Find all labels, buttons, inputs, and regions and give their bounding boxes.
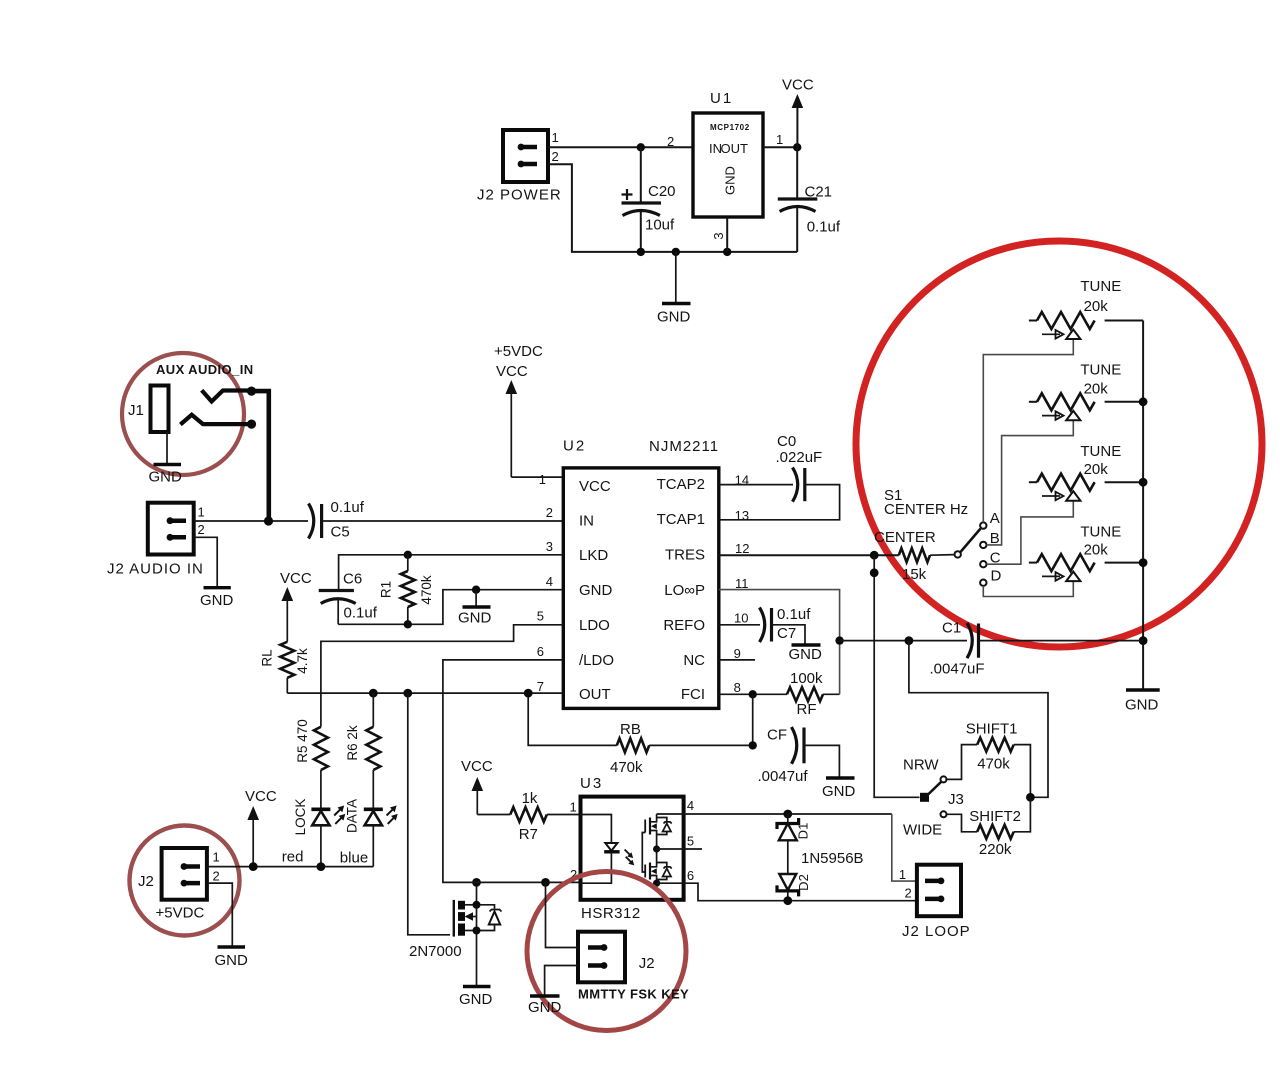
wire contact B to pot2 wiper (987, 420, 1074, 545)
ground 2N7000 (459, 987, 493, 1009)
svg-text:220k: 220k (979, 841, 1012, 858)
wire C5 to U2 pin2 (322, 520, 564, 522)
svg-text:CF: CF (767, 727, 787, 744)
node dot MMTTY branch (541, 878, 550, 887)
resistor R1 470k (379, 555, 435, 625)
jack contact lower (180, 415, 251, 425)
node dot TRES (870, 551, 879, 560)
svg-text:C20: C20 (648, 183, 676, 200)
svg-text:R1: R1 (379, 581, 394, 598)
diode 2N7000 body zener (477, 905, 502, 931)
svg-text:12: 12 (735, 541, 749, 556)
resistor RF 100k (787, 670, 823, 718)
svg-text:.022uF: .022uF (776, 449, 823, 466)
svg-text:TCAP2: TCAP2 (657, 476, 705, 493)
ground C7 (789, 645, 823, 663)
switch J3 lever (927, 782, 942, 796)
svg-text:MMTTY FSK KEY: MMTTY FSK KEY (578, 987, 689, 1002)
svg-text:5: 5 (687, 834, 694, 849)
switch J3 contact WIDE (941, 811, 947, 817)
wire U1 pin1 to VCC node (763, 146, 797, 148)
svg-text:VCC: VCC (461, 758, 493, 775)
svg-text:C21: C21 (805, 184, 833, 201)
svg-text:blue: blue (340, 850, 368, 867)
potentiometer TUNE 20k (4) (1029, 524, 1143, 582)
connector J2 AUDIO IN (107, 503, 205, 578)
svg-text:3: 3 (546, 539, 553, 554)
svg-text:1: 1 (899, 867, 906, 882)
svg-text:TUNE: TUNE (1080, 524, 1121, 541)
svg-text:GND: GND (528, 999, 562, 1016)
power VCC +5VDC (245, 788, 277, 867)
svg-text:R6 2k: R6 2k (345, 725, 360, 761)
wire VCC to U2 pin1 (511, 476, 563, 478)
resistor CENTER 15k (874, 529, 955, 583)
wire R7 to U3 pin1 (547, 814, 581, 816)
svg-text:VCC: VCC (782, 77, 814, 94)
wire C1 row (840, 640, 967, 642)
wire U2 pin12 TRES to CENTER (719, 554, 899, 556)
svg-text:D1: D1 (795, 823, 810, 840)
node dot LOOP-C1 (835, 636, 843, 644)
svg-text:1: 1 (552, 130, 559, 145)
svg-text:20k: 20k (1084, 542, 1109, 559)
wire VCC to R7 (477, 814, 510, 816)
wire U3 pin6 (657, 883, 917, 901)
wire R6 top lead (372, 693, 374, 727)
capacitor C20 10uf (622, 147, 676, 252)
capacitor C21 0.1uf (778, 147, 841, 252)
svg-text:LO∞P: LO∞P (664, 582, 705, 599)
svg-text:D: D (991, 568, 1002, 585)
wire C6 R1 bottom rail to U2 pin4 (338, 590, 563, 625)
svg-text:.0047uf: .0047uf (758, 768, 809, 785)
svg-text:U1: U1 (710, 90, 733, 107)
svg-text:GND: GND (149, 469, 183, 486)
node dot TRES branch (870, 568, 879, 577)
svg-text:0.1uf: 0.1uf (807, 219, 841, 236)
svg-text:J1: J1 (128, 402, 144, 419)
svg-text:LKD: LKD (579, 547, 608, 564)
wire J2 AUDIO IN pin2 to ground (194, 537, 218, 586)
wire contact C to pot3 wiper (987, 501, 1074, 565)
ground J2 +5VDC (215, 947, 249, 969)
switch J3 pole (920, 793, 929, 802)
svg-text:OUT: OUT (579, 686, 611, 703)
ground (power rail) (657, 252, 691, 326)
svg-text:2: 2 (213, 869, 220, 884)
svg-text:TUNE: TUNE (1080, 443, 1121, 460)
svg-text:red: red (282, 849, 304, 866)
ground U2 pin4 (458, 590, 492, 627)
svg-text:15k: 15k (902, 566, 927, 583)
power +5VDC VCC (494, 343, 543, 477)
potentiometer TUNE 20k (1) (1029, 278, 1143, 339)
svg-text:5: 5 (537, 609, 544, 624)
svg-text:C7: C7 (777, 625, 796, 642)
wire RB to pin8 node (649, 694, 753, 745)
node dot RB branch (524, 689, 533, 698)
svg-text:4: 4 (687, 798, 694, 813)
svg-text:CENTER Hz: CENTER Hz (884, 501, 968, 518)
svg-text:CENTER: CENTER (874, 529, 936, 546)
svg-text:0.1uf: 0.1uf (777, 606, 811, 623)
svg-text:470k: 470k (977, 756, 1010, 773)
wire SHIFT2 to common (1014, 797, 1031, 832)
resistor SHIFT1 470k (966, 721, 1018, 773)
wire pin6 /LDO to drain row (443, 660, 581, 883)
node dot C20 bottom rail (637, 248, 645, 256)
svg-text:R5 470: R5 470 (295, 719, 310, 763)
wire MMTTY pin2 to ground (545, 966, 578, 995)
svg-text:J2: J2 (639, 955, 655, 972)
node dot R1 bottom (404, 620, 412, 628)
svg-text:VCC: VCC (579, 478, 611, 495)
svg-text:GND: GND (822, 783, 856, 800)
svg-text:11: 11 (735, 576, 749, 591)
wire RF to LOOP vertical (823, 693, 840, 695)
ground CF (822, 778, 856, 800)
wire OUT row (287, 692, 563, 694)
svg-text:2: 2 (546, 505, 553, 520)
svg-text:GND: GND (789, 646, 823, 663)
svg-text:7: 7 (537, 679, 544, 694)
svg-text:1k: 1k (522, 790, 538, 807)
node dot J3 common (1026, 793, 1035, 802)
LED DATA (345, 770, 398, 867)
svg-text:470k: 470k (610, 759, 643, 776)
svg-text:6: 6 (687, 868, 694, 883)
svg-text:J3: J3 (948, 791, 964, 808)
svg-text:SHIFT2: SHIFT2 (969, 808, 1021, 825)
wire C1 to ground bus (979, 640, 1144, 642)
wire U2 pin3 LKD (339, 555, 564, 589)
svg-text:20k: 20k (1084, 461, 1109, 478)
svg-text:C1: C1 (942, 620, 961, 637)
svg-text:100k: 100k (790, 670, 823, 687)
potentiometer TUNE 20k (2) (1029, 362, 1143, 421)
svg-text:VCC: VCC (496, 363, 528, 380)
svg-text:RF: RF (797, 701, 817, 718)
wire NRW to SHIFT1 (947, 745, 978, 780)
svg-text:U3: U3 (580, 775, 603, 792)
svg-text:J2: J2 (138, 873, 154, 890)
wire C7 to ground (772, 625, 806, 644)
power VCC (top) (782, 77, 814, 148)
svg-text:LDO: LDO (579, 617, 610, 634)
switch S1 pole (955, 551, 961, 557)
svg-text:GND: GND (458, 610, 492, 627)
svg-text:1: 1 (776, 132, 783, 147)
svg-text:DATA: DATA (345, 799, 360, 833)
jack contact upper (202, 390, 252, 401)
node dot D1 top (783, 810, 792, 819)
resistor SHIFT2 220k (969, 808, 1021, 858)
svg-text:20k: 20k (1084, 381, 1109, 398)
svg-text:C6: C6 (343, 571, 362, 588)
svg-text:1: 1 (213, 850, 220, 865)
power VCC R7 (461, 758, 493, 815)
capacitor C0 .022uF (776, 433, 823, 502)
wire U2 pin10 REFO (719, 624, 760, 626)
svg-text:1: 1 (539, 472, 546, 487)
resistor R6 2k (345, 725, 380, 770)
switch contact B (980, 542, 986, 548)
svg-text:+5VDC: +5VDC (494, 343, 543, 360)
svg-text:2: 2 (667, 134, 674, 149)
svg-text:RB: RB (620, 721, 641, 738)
ground bus GND (1125, 690, 1160, 714)
LED LOCK (293, 770, 345, 867)
wire contact A to pot1 wiper (983, 339, 1073, 522)
svg-text:3: 3 (711, 232, 726, 239)
capacitor C7 0.1uf (760, 606, 812, 642)
svg-text:J2 POWER: J2 POWER (477, 187, 562, 204)
svg-text:1: 1 (570, 800, 577, 815)
node dot R6 top (369, 689, 378, 698)
red circle J2 +5VDC (130, 826, 240, 936)
svg-text:C0: C0 (777, 433, 796, 450)
svg-text:NRW: NRW (903, 757, 939, 774)
power VCC RL (280, 570, 312, 642)
svg-text:FCI: FCI (681, 686, 705, 703)
node dot gate branch (403, 689, 412, 698)
IC U1 MCP1702 (693, 90, 763, 217)
wire SHIFT1 to common (1014, 745, 1031, 798)
wire J2 POWER pin2 to ground rail (548, 164, 797, 252)
connector J2 LOOP (899, 865, 971, 940)
node dot C1 left (905, 636, 914, 645)
node dot jack ring (247, 420, 256, 429)
wire J2 +5VDC pin2 to ground (207, 883, 232, 945)
capacitor C5 0.1uf (309, 499, 365, 541)
capacitor CF .0047uf (758, 727, 809, 786)
connector J1 (128, 386, 169, 433)
node dot VCC branch (249, 862, 258, 871)
LED inside U3 (581, 815, 635, 884)
svg-text:2: 2 (905, 886, 912, 901)
resistor RL 4.7k (260, 642, 310, 693)
svg-text:GND: GND (579, 582, 613, 599)
wire U2 pin8 FCI (719, 693, 787, 695)
svg-text:NC: NC (683, 652, 705, 669)
wire J2 POWER pin1 to U1 pin2 (548, 146, 693, 148)
node dot C20 top (637, 143, 645, 151)
wire U3 pin5 stub (657, 848, 702, 850)
switch J3 contact NRW (941, 776, 947, 782)
potentiometer TUNE 20k (3) (1029, 443, 1143, 501)
IC U2 NJM2211 (537, 438, 750, 709)
wire U2 pin11 LOOP (719, 590, 840, 695)
node dot drain (473, 901, 481, 909)
red circle MMTTY (527, 872, 686, 1031)
node dot ground stub (672, 248, 680, 256)
wire U3 pin4 (657, 813, 892, 815)
resistor RB 470k (610, 721, 649, 776)
wire U2 pin9 NC stub (719, 659, 755, 661)
svg-text:U2: U2 (563, 438, 586, 455)
node dot pin8 (749, 690, 757, 698)
wire WIDE to SHIFT2 (947, 814, 978, 832)
svg-text:TCAP1: TCAP1 (657, 511, 705, 528)
node dot bus pot3 (1139, 478, 1148, 487)
svg-text:GND: GND (459, 991, 493, 1008)
svg-text:J2 LOOP: J2 LOOP (902, 923, 971, 940)
wire J2 AUDIO IN pin1 to C5 (194, 520, 308, 522)
node dot bus pot2 (1139, 397, 1148, 406)
svg-text:GND: GND (200, 592, 234, 609)
svg-text:.0047uF: .0047uF (930, 661, 985, 678)
svg-text:REFO: REFO (663, 617, 705, 634)
svg-text:TRES: TRES (665, 547, 705, 564)
svg-text:LOCK: LOCK (293, 799, 308, 836)
resistor R7 1k (510, 790, 546, 843)
wire MMTTY pin1 (546, 882, 579, 947)
svg-text:A: A (990, 510, 1000, 527)
MOSFET pair inside U3 (642, 814, 671, 887)
svg-text:VCC: VCC (245, 788, 277, 805)
wire pin5 LDO to R5 (321, 625, 563, 727)
wire TCAP loop to pin13 (719, 485, 840, 520)
connector J2 +5VDC (138, 848, 220, 922)
svg-text:8: 8 (734, 680, 741, 695)
wire J2 LOOP pin1 drop (892, 814, 917, 881)
svg-text:C5: C5 (331, 524, 350, 541)
svg-text:9: 9 (734, 646, 741, 661)
switch S1 lever (960, 529, 980, 553)
node dot source (473, 927, 481, 935)
svg-text:470k: 470k (419, 575, 434, 605)
transistor 2N7000 (409, 882, 477, 985)
svg-text:OUT: OUT (721, 141, 749, 156)
wire U2 pin14 TCAP2 (719, 484, 793, 486)
svg-text:GND: GND (1125, 697, 1159, 714)
node dot pin4 ground stub (472, 586, 480, 594)
svg-text:10: 10 (734, 611, 748, 626)
node dot LOCK LED (317, 862, 326, 871)
svg-text:D2: D2 (796, 874, 811, 891)
wire red blue row (207, 866, 373, 868)
wire C1 node to J3 shift net (909, 641, 1048, 798)
svg-text:J2 AUDIO IN: J2 AUDIO IN (107, 561, 204, 578)
node dot C5 junction (264, 516, 273, 525)
svg-text:4: 4 (546, 574, 553, 589)
capacitor C1 .0047uF (930, 620, 985, 678)
svg-text:10uf: 10uf (645, 217, 675, 234)
svg-text:IN: IN (579, 513, 594, 530)
node dot R1 top (404, 551, 412, 559)
svg-text:6: 6 (537, 644, 544, 659)
label S1 CENTER Hz (884, 487, 968, 518)
connector J2 MMTTY FSK KEY (578, 932, 689, 1002)
svg-text:MCP1702: MCP1702 (710, 123, 750, 132)
svg-text:GND: GND (657, 309, 691, 326)
svg-text:2: 2 (552, 149, 559, 164)
node dot jack tip (247, 387, 256, 396)
wire TRES down to J3 pole (874, 555, 919, 797)
switch contact D (980, 580, 986, 586)
capacitor C6 0.1uf (319, 571, 378, 625)
diode D1 (777, 814, 810, 874)
connector J2 POWER (477, 130, 562, 204)
red circle TUNE group (856, 241, 1262, 647)
node dot VCC C21 (793, 143, 801, 151)
svg-text:2: 2 (198, 522, 205, 537)
wire CF to ground (804, 745, 839, 776)
node dot bus pot4 (1139, 558, 1148, 567)
svg-text:+5VDC: +5VDC (156, 905, 205, 922)
wire ground bus right (1142, 321, 1144, 689)
IC U3 HSR312 (580, 775, 684, 922)
wire contact D to pot4 wiper (983, 581, 1073, 596)
svg-text:AUX AUDIO_IN: AUX AUDIO_IN (156, 362, 254, 377)
svg-text:1N5956B: 1N5956B (801, 850, 864, 867)
red circle AUX AUDIO_IN (122, 353, 244, 475)
wire U1 pin3 (726, 217, 728, 252)
svg-text:R7: R7 (519, 826, 538, 843)
wire jack to C5 node (thick) (249, 391, 269, 521)
node dot drain wire (472, 878, 481, 887)
wire gate from OUT (408, 693, 450, 935)
ground J2 AUDIO IN (200, 588, 234, 609)
node dot CF junction (749, 741, 757, 749)
ground MMTTY (528, 996, 562, 1016)
ground J1 (149, 432, 183, 486)
svg-text:TUNE: TUNE (1080, 278, 1121, 295)
switch contact A (980, 522, 986, 528)
svg-text:SHIFT1: SHIFT1 (966, 721, 1018, 738)
diode D2 (777, 874, 811, 901)
svg-text:VCC: VCC (280, 570, 312, 587)
svg-text:4.7k: 4.7k (295, 648, 310, 674)
svg-text:GND: GND (722, 166, 737, 195)
wire RB row (528, 693, 617, 745)
svg-text:20k: 20k (1084, 298, 1109, 315)
node dot U1 pin3 (723, 248, 731, 256)
node dot bus C1 (1139, 636, 1148, 645)
svg-text:GND: GND (215, 952, 249, 969)
svg-text:WIDE: WIDE (903, 822, 942, 839)
svg-text:0.1uf: 0.1uf (331, 499, 365, 516)
svg-text:0.1uf: 0.1uf (344, 605, 378, 622)
resistor R5 470 (295, 719, 328, 770)
node dot D2 bottom (783, 896, 792, 905)
svg-text:/LDO: /LDO (579, 652, 614, 669)
svg-text:HSR312: HSR312 (581, 905, 641, 922)
switch contact C (980, 561, 986, 567)
svg-text:1: 1 (198, 505, 205, 520)
svg-text:RL: RL (260, 649, 275, 667)
svg-text:TUNE: TUNE (1080, 362, 1121, 379)
svg-text:2N7000: 2N7000 (409, 943, 462, 960)
svg-text:NJM2211: NJM2211 (649, 438, 719, 455)
